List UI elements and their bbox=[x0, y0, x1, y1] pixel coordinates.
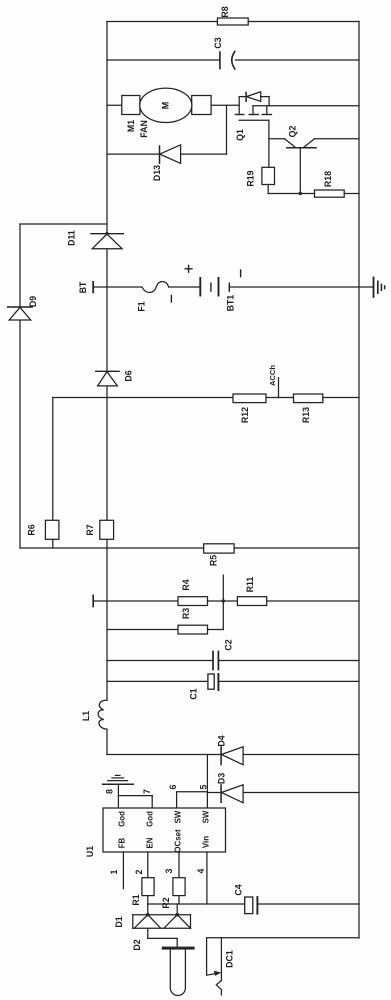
resistor R6 bbox=[45, 520, 59, 539]
inductor L1 bbox=[98, 700, 107, 729]
svg-text:R3: R3 bbox=[181, 608, 191, 619]
diode D3 bbox=[207, 792, 221, 794]
wire feedback y=904 bbox=[148, 903, 245, 905]
wire D13 branch y=154.1 bbox=[107, 153, 160, 155]
wire C3 branch y=60 bbox=[107, 59, 220, 61]
capacitor C2 bbox=[212, 652, 214, 670]
wire left rail top y=224 bbox=[20, 223, 107, 225]
wire top rail y=21.5 bbox=[107, 21, 217, 23]
wire R19/R18 y=193.5 bbox=[268, 193, 314, 195]
svg-text:D1: D1 bbox=[114, 916, 124, 927]
svg-text:L1: L1 bbox=[81, 711, 91, 721]
wire R4/R11 branch y=601 bbox=[92, 596, 94, 607]
capacitor C1 bbox=[208, 674, 214, 689]
mosfet Q1 bbox=[238, 97, 240, 115]
pin 2 wire bbox=[147, 852, 149, 878]
svg-text:R19: R19 bbox=[245, 170, 255, 186]
svg-text:FB: FB bbox=[118, 837, 127, 848]
svg-text:C2: C2 bbox=[223, 639, 233, 650]
svg-text:6: 6 bbox=[168, 784, 178, 789]
diode D9 bbox=[8, 306, 33, 308]
svg-text:1: 1 bbox=[109, 869, 119, 874]
battery feed wire y=287 bbox=[92, 282, 94, 292]
svg-text:God: God bbox=[118, 811, 127, 827]
wire C1 branch y=681.4 bbox=[107, 680, 208, 682]
wire right rail bbox=[358, 22, 360, 939]
svg-text:R2: R2 bbox=[161, 897, 171, 908]
resistor R11 bbox=[237, 597, 266, 606]
svg-text:D11: D11 bbox=[66, 230, 76, 246]
motor M1 FAN bbox=[107, 104, 122, 106]
svg-text:C1: C1 bbox=[188, 688, 198, 699]
wire L1 to D4 y=754.5 bbox=[107, 754, 221, 756]
diodes D1 D2 block bbox=[147, 904, 149, 915]
svg-text:SW: SW bbox=[202, 810, 211, 823]
pin 1 wire bbox=[122, 852, 124, 889]
label - of battery right bbox=[240, 270, 242, 277]
label + of battery bbox=[185, 268, 192, 270]
svg-text:R18: R18 bbox=[323, 171, 333, 187]
pin 4 wire bbox=[206, 852, 208, 904]
svg-text:D6: D6 bbox=[123, 370, 133, 381]
resistor R12 bbox=[233, 394, 266, 403]
svg-text:R6: R6 bbox=[26, 524, 36, 535]
resistor R4 bbox=[178, 597, 208, 606]
diode D4 bbox=[220, 747, 222, 765]
resistor R7 bbox=[100, 520, 114, 539]
svg-text:D13: D13 bbox=[152, 165, 162, 181]
label - of fuse side bbox=[170, 296, 172, 302]
svg-text:DC1: DC1 bbox=[224, 950, 234, 968]
diode D1 bbox=[134, 915, 161, 929]
svg-text:R12: R12 bbox=[240, 407, 250, 423]
wire R12/R13 branch y=397.5 bbox=[53, 397, 233, 399]
svg-text:Vin: Vin bbox=[202, 836, 211, 848]
svg-text:D9: D9 bbox=[28, 296, 38, 307]
svg-text:FAN: FAN bbox=[139, 120, 149, 138]
svg-text:BT1: BT1 bbox=[225, 295, 235, 312]
svg-text:Q1: Q1 bbox=[235, 129, 245, 141]
wire R6 branch bbox=[52, 398, 54, 521]
svg-text:SW: SW bbox=[174, 810, 183, 823]
node ACCh stub bbox=[278, 378, 280, 398]
svg-text:5: 5 bbox=[198, 784, 208, 789]
lamp EL bbox=[162, 947, 195, 950]
svg-text:C3: C3 bbox=[213, 37, 223, 48]
wire pins 7/8 bbox=[117, 784, 119, 808]
svg-text:R8: R8 bbox=[220, 6, 230, 17]
svg-text:C4: C4 bbox=[233, 884, 243, 895]
capacitor C4 bbox=[245, 897, 253, 914]
transistor Q2 bbox=[269, 138, 285, 140]
IC U1 bbox=[103, 808, 226, 852]
svg-text:D3: D3 bbox=[216, 773, 226, 784]
svg-text:R5: R5 bbox=[208, 555, 218, 566]
wire to lamp bbox=[147, 928, 149, 938]
wire left rail x=20 bbox=[19, 224, 21, 548]
svg-text:God: God bbox=[146, 811, 155, 827]
svg-text:D4: D4 bbox=[216, 735, 226, 746]
svg-text:4: 4 bbox=[196, 868, 206, 873]
resistor R5 bbox=[204, 544, 234, 553]
svg-text:R13: R13 bbox=[301, 407, 311, 423]
ground right bbox=[359, 286, 374, 288]
diode D13 bbox=[159, 146, 161, 163]
resistor R18 bbox=[315, 190, 345, 197]
diode D2 bbox=[164, 915, 191, 929]
wire C2 branch y=660.5 bbox=[107, 660, 213, 662]
svg-text:7: 7 bbox=[142, 789, 152, 794]
svg-text:EN: EN bbox=[146, 837, 155, 848]
svg-text:BT: BT bbox=[78, 281, 88, 293]
svg-text:8: 8 bbox=[104, 789, 114, 794]
DC jack DC1 bbox=[207, 937, 359, 939]
resistor R19 bbox=[262, 167, 275, 184]
ground at pin 8 bbox=[103, 783, 134, 785]
svg-text:R7: R7 bbox=[85, 524, 95, 535]
wire SW pins 5/6 bbox=[206, 755, 208, 809]
diode D6 bbox=[96, 370, 119, 372]
svg-text:OCset: OCset bbox=[174, 829, 183, 853]
capacitor C3 bbox=[220, 52, 235, 70]
svg-text:M1: M1 bbox=[126, 120, 136, 132]
wire R5 branch y=548 bbox=[20, 547, 204, 549]
wire motor node down to D13 bbox=[226, 105, 228, 154]
wire R3 branch y=629.5 bbox=[107, 629, 178, 631]
svg-text:M: M bbox=[161, 102, 171, 110]
gate of Q1 bbox=[239, 119, 269, 121]
wire Q2 base down bbox=[299, 148, 301, 194]
resistor R3 bbox=[178, 625, 208, 634]
resistor R1 bbox=[142, 878, 154, 896]
svg-text:R1: R1 bbox=[131, 894, 141, 905]
svg-text:U1: U1 bbox=[85, 846, 95, 857]
svg-text:3: 3 bbox=[164, 868, 174, 873]
resistor R2 bbox=[173, 878, 185, 896]
resistor R8 bbox=[217, 18, 248, 25]
svg-text:R4: R4 bbox=[181, 579, 191, 590]
svg-text:2: 2 bbox=[134, 869, 144, 874]
wire motor to Q1 drain bbox=[211, 104, 239, 106]
svg-text:ACCh: ACCh bbox=[268, 365, 277, 386]
fuse F1 bbox=[142, 282, 169, 293]
svg-text:Q2: Q2 bbox=[287, 126, 297, 138]
battery BT1 bbox=[199, 278, 201, 296]
svg-text:D2: D2 bbox=[132, 939, 142, 950]
diode D11 bbox=[91, 233, 123, 235]
junction bbox=[299, 192, 302, 195]
node mid vertical bbox=[222, 575, 224, 629]
wire left trunk x=107 bbox=[106, 22, 108, 701]
svg-text:F1: F1 bbox=[136, 301, 146, 311]
svg-text:R11: R11 bbox=[245, 577, 255, 593]
resistor R13 bbox=[294, 394, 323, 403]
pin 3 wire bbox=[178, 852, 180, 878]
